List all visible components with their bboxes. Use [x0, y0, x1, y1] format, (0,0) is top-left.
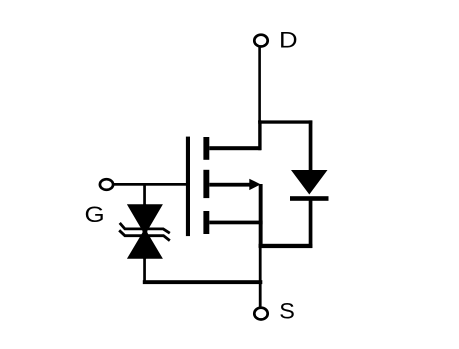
zener Z1 top diode triangle — [127, 204, 163, 235]
wire source trunk to S terminal — [259, 246, 262, 307]
transistor Q1 gate electrode — [186, 137, 190, 237]
wire bottom branch from body diode to source trunk — [259, 244, 313, 248]
body diode D1 anode triangle — [291, 170, 328, 195]
svg-text:S: S — [279, 299, 295, 324]
transistor Q1 body lead — [209, 183, 250, 187]
wire bottom rail zener to source net — [143, 280, 262, 284]
wire gate lead horizontal — [114, 183, 190, 186]
wire diode branch lower vertical — [309, 200, 313, 248]
terminal G circle — [100, 179, 113, 190]
wire drain lead vertical from D terminal — [258, 47, 261, 123]
terminal D circle — [254, 35, 267, 47]
wire zener branch upper vertical — [143, 184, 146, 205]
transistor Q1 channel segment source — [203, 211, 209, 234]
body diode D1 cathode bar — [290, 196, 329, 201]
wire trunk lower segment body to source net — [259, 184, 263, 247]
zener Z2 bottom cathode bar — [119, 230, 170, 240]
zener neck junction — [143, 227, 148, 240]
zener Z2 bottom diode triangle — [127, 229, 163, 259]
zener Z1 top cathode bar — [120, 223, 170, 233]
wire trunk upper segment to MOSFET drain — [258, 120, 261, 150]
wire diode branch upper vertical — [309, 120, 313, 170]
svg-text:D: D — [279, 28, 298, 53]
transistor Q1 channel segment drain — [203, 137, 209, 160]
wire zener branch lower vertical — [143, 258, 146, 283]
terminal S circle — [254, 308, 267, 320]
wire zener center link — [143, 204, 146, 259]
transistor Q1 drain lead — [209, 146, 261, 150]
svg-text:G: G — [85, 202, 105, 227]
transistor Q1 source lead — [209, 221, 262, 225]
transistor Q1 body arrow (P-channel) — [249, 179, 260, 190]
transistor Q1 channel segment body — [203, 170, 209, 198]
wire top branch to body diode — [258, 120, 312, 123]
